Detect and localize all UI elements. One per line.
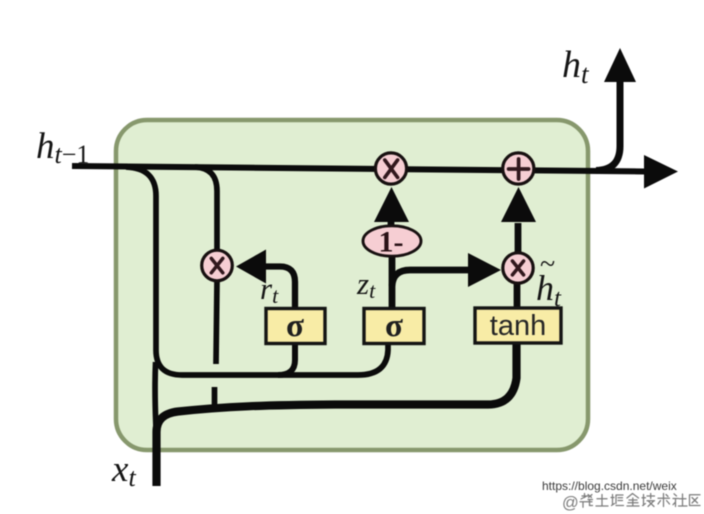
- wire: candidate multiply up to plus: [515, 223, 522, 252]
- wire: main h line: [72, 166, 645, 172]
- char shu: [658, 494, 670, 507]
- node: arrowhead into plus: [501, 187, 536, 222]
- char qu: [690, 495, 701, 506]
- wire: drop 1 from h line to gate bus: [126, 167, 388, 375]
- op: candidate multiply circle: [503, 253, 533, 283]
- op: main multiply circle: [375, 153, 406, 184]
- watermark: juejin community: [562, 494, 700, 513]
- cell body (GRU green rounded box): [116, 120, 588, 450]
- svg-text:1-: 1-: [379, 226, 404, 259]
- svg-text:~: ~: [540, 249, 555, 280]
- svg-text:https://blog.csdn.net/weix: https://blog.csdn.net/weix: [542, 479, 677, 493]
- wire: drop 2 from h line to reset multiply: [195, 167, 217, 252]
- node: r_t arrowhead into reset multiply: [236, 250, 266, 284]
- wire: 1- up to main multiply: [388, 221, 395, 228]
- op: plus circle: [503, 153, 534, 184]
- wire: reset multiply output upper segment: [216, 280, 217, 364]
- wire: r_t from sigma1 up to reset multiply: [266, 267, 295, 311]
- wire: z_t branch right to candidate multiply: [392, 270, 469, 286]
- svg-text:ht: ht: [562, 44, 590, 89]
- wire: h_t branch up: [596, 80, 620, 171]
- node: output arrowhead right: [644, 155, 678, 189]
- char ji: [642, 494, 655, 507]
- char jue: [611, 495, 624, 506]
- wire: z_t from sigma2 up to 1- node: [389, 254, 396, 310]
- char tu: [596, 495, 608, 507]
- char xi: [580, 494, 593, 508]
- gate: tanh box: [475, 308, 561, 343]
- gate: sigma 1 box: [266, 309, 325, 344]
- char jin: [627, 494, 639, 507]
- gate: sigma 2 box: [364, 309, 424, 344]
- svg-text:xt: xt: [111, 449, 136, 492]
- wire: x_t input to candidate bus to tanh: [157, 343, 517, 486]
- wire: reset multiply output lower segment: [212, 387, 218, 409]
- char she: [673, 494, 687, 507]
- op: 1- ellipse: [363, 226, 421, 256]
- svg-text:σ: σ: [385, 308, 403, 344]
- node: arrowhead into main multiply: [374, 187, 409, 222]
- node: z arrowhead into candidate multiply: [468, 253, 501, 287]
- svg-text:tanh: tanh: [490, 310, 546, 342]
- wire: tanh up to candidate multiply: [514, 283, 521, 308]
- svg-text:@: @: [562, 494, 579, 512]
- wire: sigma1 stub down to gate bus: [278, 342, 295, 375]
- svg-text:ht−1: ht−1: [36, 126, 89, 169]
- op: reset multiply circle: [202, 250, 233, 281]
- node: h_t arrowhead: [604, 48, 636, 82]
- svg-text:σ: σ: [286, 308, 304, 344]
- wire: left vertical bridge to x_t: [155, 362, 156, 440]
